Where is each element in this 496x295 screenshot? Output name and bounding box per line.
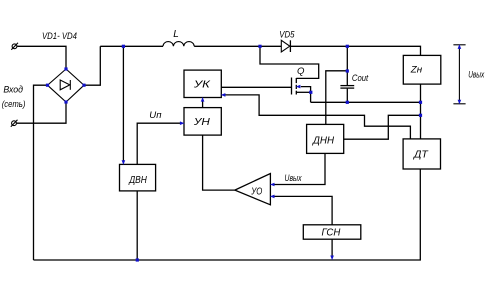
svg-text:УК: УК — [193, 79, 212, 90]
svg-text:ДВН: ДВН — [128, 175, 147, 186]
svg-text:Q: Q — [297, 66, 305, 77]
svg-text:УН: УН — [193, 117, 211, 128]
svg-text:УО: УО — [251, 186, 263, 197]
svg-text:Zн: Zн — [410, 65, 423, 76]
svg-text:VD5: VD5 — [279, 29, 295, 39]
svg-text:Uп: Uп — [149, 110, 161, 120]
svg-text:ДНН: ДНН — [312, 136, 335, 147]
svg-text:L: L — [173, 29, 179, 40]
svg-text:Вход: Вход — [3, 85, 23, 95]
svg-text:VD1- VD4: VD1- VD4 — [42, 31, 77, 41]
svg-text:Cout: Cout — [352, 73, 369, 83]
svg-text:ГСН: ГСН — [322, 227, 342, 238]
svg-text:ДТ: ДТ — [413, 150, 429, 161]
svg-text:Uвых: Uвых — [468, 69, 484, 79]
svg-text:(сеть): (сеть) — [2, 99, 26, 109]
svg-text:Uвых: Uвых — [285, 173, 302, 183]
